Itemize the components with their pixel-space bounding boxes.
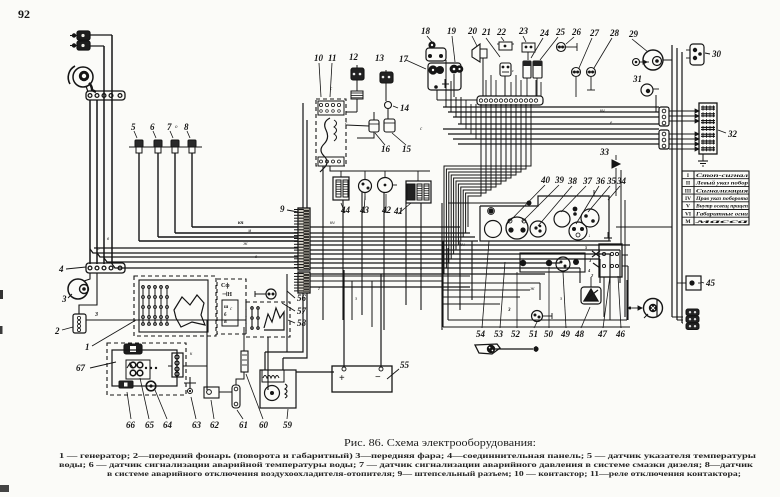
svg-text:б: б (224, 313, 227, 318)
svg-text:+: + (339, 373, 345, 384)
svg-text:↓: ↓ (588, 234, 591, 239)
svg-text:III: III (685, 188, 691, 194)
svg-text:3: 3 (94, 312, 98, 318)
svg-text:62: 62 (210, 420, 220, 430)
svg-text:ш: ш (224, 305, 229, 310)
svg-text:44: 44 (340, 205, 351, 215)
svg-text:53: 53 (494, 329, 504, 339)
svg-text:58: 58 (297, 318, 307, 328)
svg-text:5: 5 (585, 245, 588, 250)
svg-text:20: 20 (467, 26, 478, 36)
svg-text:15: 15 (402, 144, 412, 154)
svg-text:к: к (190, 352, 193, 357)
svg-text:56: 56 (297, 293, 307, 303)
svg-text:51: 51 (529, 329, 538, 339)
svg-text:60: 60 (259, 420, 269, 430)
svg-text:13: 13 (375, 53, 385, 63)
svg-text:48: 48 (574, 329, 585, 339)
svg-text:М: М (685, 219, 691, 225)
svg-text:45: 45 (705, 278, 716, 288)
svg-text:Внутр освещ прицеп: Внутр освещ прицеп (695, 204, 748, 210)
svg-text:I: I (687, 173, 689, 179)
svg-text:в системе аварийного отключени: в системе аварийного отключения воздухоо… (107, 469, 741, 478)
svg-text:59: 59 (283, 420, 293, 430)
svg-text:кч: кч (238, 221, 244, 226)
svg-text:14: 14 (400, 103, 410, 113)
svg-text:9: 9 (280, 204, 285, 214)
svg-text:54: 54 (476, 329, 486, 339)
svg-text:я: я (224, 320, 227, 325)
svg-text:18: 18 (421, 26, 431, 36)
svg-text:с: с (512, 68, 514, 73)
svg-text:57: 57 (297, 306, 307, 316)
svg-text:4: 4 (58, 264, 64, 274)
svg-text:−: − (375, 372, 381, 383)
svg-text:ж: ж (243, 242, 248, 247)
svg-text:25: 25 (555, 27, 566, 37)
svg-text:1: 1 (85, 342, 90, 352)
svg-text:3: 3 (507, 308, 511, 313)
svg-text:30: 30 (711, 49, 722, 59)
svg-text:Сф: Сф (221, 282, 229, 289)
svg-text:5: 5 (131, 122, 136, 132)
svg-text:39: 39 (554, 175, 565, 185)
svg-text:64: 64 (163, 420, 173, 430)
svg-text:II: II (686, 181, 690, 187)
svg-text:с: с (230, 307, 233, 312)
svg-text:23: 23 (518, 26, 529, 36)
svg-text:Стоп-сигнал: Стоп-сигнал (696, 173, 748, 179)
svg-text:22: 22 (496, 27, 507, 37)
svg-text:IV: IV (685, 196, 691, 202)
svg-text:55: 55 (400, 360, 410, 370)
svg-text:Сигнализация: Сигнализация (696, 188, 748, 194)
svg-text:61: 61 (239, 420, 248, 430)
svg-text:35: 35 (606, 176, 617, 186)
svg-text:12: 12 (349, 52, 359, 62)
svg-text:⊣Н: ⊣Н (222, 291, 232, 298)
svg-text:21: 21 (481, 27, 491, 37)
svg-text:7: 7 (167, 122, 172, 132)
svg-text:VI: VI (685, 211, 691, 217)
svg-text:ж: ж (530, 287, 535, 292)
svg-text:27: 27 (589, 28, 600, 38)
svg-text:26: 26 (571, 27, 582, 37)
svg-text:37: 37 (582, 176, 593, 186)
svg-text:29: 29 (628, 29, 639, 39)
svg-text:о: о (175, 125, 178, 130)
svg-text:92: 92 (18, 7, 30, 21)
svg-text:31: 31 (632, 74, 642, 84)
svg-text:11: 11 (328, 53, 337, 63)
svg-text:1 — генератор; 2—передний фона: 1 — генератор; 2—передний фонарь (поворо… (59, 451, 756, 460)
svg-text:28: 28 (609, 28, 620, 38)
svg-text:67: 67 (76, 363, 86, 373)
svg-text:36: 36 (595, 176, 606, 186)
svg-text:г: г (318, 287, 320, 292)
svg-text:Левый указ побор: Левый указ побор (695, 180, 749, 187)
svg-text:65: 65 (145, 420, 155, 430)
svg-text:33: 33 (599, 147, 610, 157)
svg-text:кч: кч (330, 221, 335, 226)
svg-text:10: 10 (314, 53, 324, 63)
svg-text:52: 52 (511, 329, 521, 339)
svg-text:Прав указ поборота: Прав указ поборота (695, 195, 748, 202)
svg-text:50: 50 (544, 329, 554, 339)
svg-text:2: 2 (54, 326, 60, 336)
svg-text:Габаритные огни: Габаритные огни (695, 210, 748, 217)
svg-text:масса: масса (692, 219, 749, 225)
svg-text:47: 47 (597, 329, 608, 339)
svg-text:з: з (354, 297, 357, 302)
svg-text:66: 66 (126, 420, 136, 430)
svg-text:в: в (107, 237, 110, 242)
svg-text:воды; 6 — датчик сигнализации: воды; 6 — датчик сигнализации аварийной … (59, 460, 754, 469)
svg-text:49: 49 (560, 329, 571, 339)
svg-text:V: V (686, 204, 690, 210)
svg-text:6: 6 (150, 122, 155, 132)
svg-text:3: 3 (61, 294, 67, 304)
svg-text:24: 24 (539, 28, 550, 38)
svg-text:19: 19 (447, 26, 457, 36)
svg-text:46: 46 (615, 329, 626, 339)
svg-text:40: 40 (540, 175, 551, 185)
svg-text:Рис. 86. Схема электрооборудов: Рис. 86. Схема электрооборудования: (344, 438, 536, 449)
svg-text:63: 63 (192, 420, 202, 430)
svg-text:з: з (559, 297, 562, 302)
svg-text:8: 8 (184, 122, 189, 132)
svg-text:с: с (420, 127, 423, 132)
svg-text:32: 32 (727, 129, 738, 139)
svg-text:16: 16 (381, 144, 391, 154)
svg-text:17: 17 (399, 54, 409, 64)
svg-text:38: 38 (567, 176, 578, 186)
